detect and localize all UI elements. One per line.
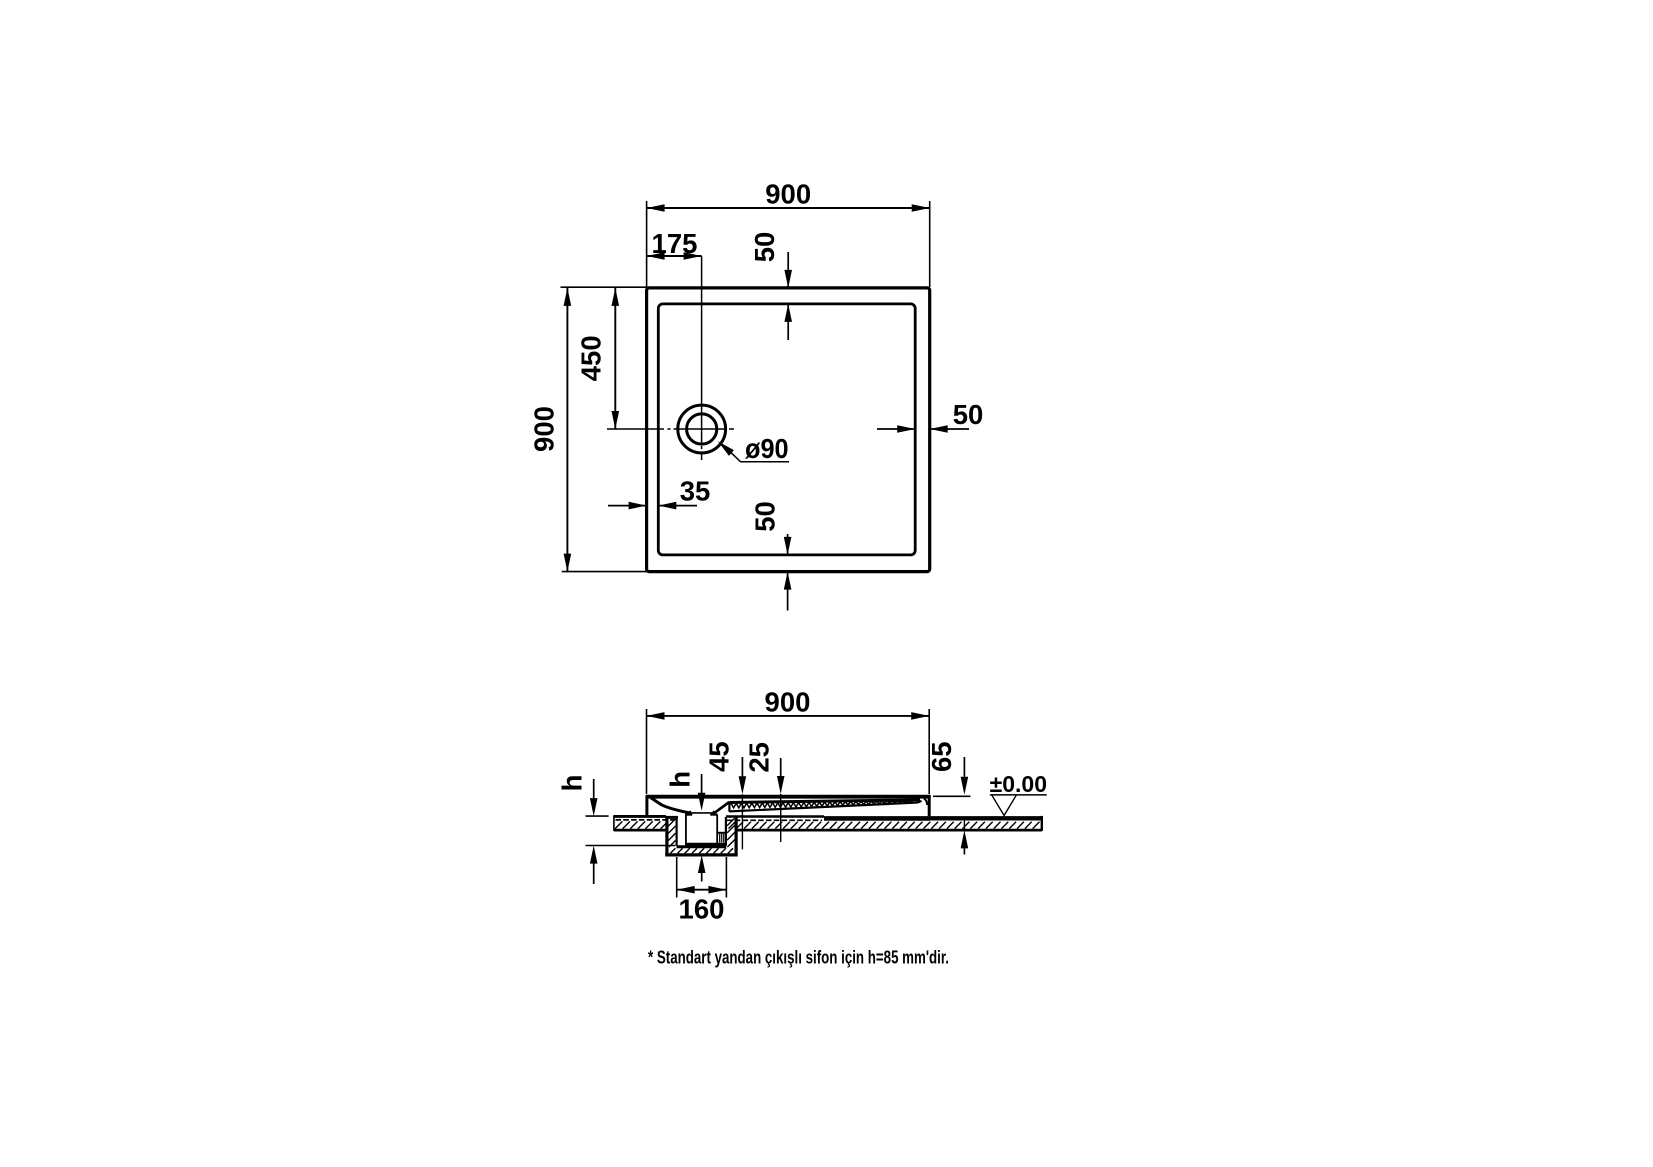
dimension 50 right (plan, rim width) [877, 399, 983, 433]
outer square of shower tray (plan view) [647, 288, 930, 572]
dimension 175 (plan, drain from left edge) [647, 228, 702, 260]
svg-text:50: 50 [749, 501, 780, 532]
tray right rim [928, 795, 931, 816]
siphon body bottom [685, 843, 727, 846]
svg-text:160: 160 [679, 894, 725, 925]
floor slab right of sump [726, 816, 1042, 831]
drain seat ledges [685, 813, 692, 815]
svg-text:50: 50 [749, 232, 780, 263]
drain inner circle [687, 414, 717, 444]
floor slab left of sump [614, 815, 675, 831]
dimension 900 top (plan) [647, 179, 930, 288]
dimension 900 (section, top) [647, 687, 930, 795]
svg-text:h: h [665, 771, 696, 788]
dimension 65 (section, tray height) [926, 741, 971, 854]
inner basin rounded rectangle [658, 304, 915, 555]
drain outer circle [678, 405, 726, 453]
svg-text:25: 25 [744, 742, 775, 773]
svg-text:450: 450 [575, 335, 606, 381]
svg-text:h: h [557, 775, 588, 792]
dimension 450 (plan, drain from top edge) [575, 288, 619, 429]
tray base wedge (cut material, serrated) [729, 798, 927, 812]
side outlet pipe stub [718, 833, 726, 843]
dimension 900 left (plan) [528, 287, 646, 571]
tray left rim [645, 795, 648, 816]
dimension 45 (section) [704, 741, 747, 849]
svg-text:900: 900 [765, 687, 811, 718]
svg-text:ø90: ø90 [745, 433, 789, 464]
dimension 25 (section) [744, 742, 785, 842]
drain centerline horizontal [607, 428, 664, 430]
svg-text:65: 65 [926, 741, 957, 772]
svg-text:900: 900 [528, 406, 559, 452]
drain centerline vertical [701, 256, 703, 443]
svg-text:±0.00: ±0.00 [990, 771, 1047, 797]
dimension h (center, drain depth) [665, 771, 706, 882]
basin left slope into drain [651, 798, 690, 813]
dimension h (left, sump depth) [557, 775, 676, 884]
leader and label for drain diameter [718, 433, 789, 464]
svg-text:175: 175 [652, 228, 698, 259]
siphon body walls [685, 815, 687, 844]
sump recess walls (section) [665, 816, 738, 855]
level mark ±0.00 [990, 771, 1047, 816]
sump wall hatching [668, 819, 735, 854]
svg-text:50: 50 [953, 399, 984, 430]
svg-text:* Standart yandan çıkışlı sifo: * Standart yandan çıkışlı sifon için h=8… [648, 947, 949, 968]
basin right slope at drain [714, 802, 729, 813]
dimension 50 top (plan, rim width) [749, 232, 792, 340]
drain grate line [690, 811, 713, 813]
svg-text:900: 900 [765, 179, 811, 210]
svg-text:35: 35 [680, 476, 711, 507]
tray top surface line (section) [646, 795, 930, 799]
dimension 35 (plan, left rim width) [608, 476, 710, 510]
dimension 160 (sump width) [677, 857, 727, 925]
dimension 50 bottom (plan, rim width) [749, 501, 791, 610]
svg-text:45: 45 [704, 741, 735, 772]
